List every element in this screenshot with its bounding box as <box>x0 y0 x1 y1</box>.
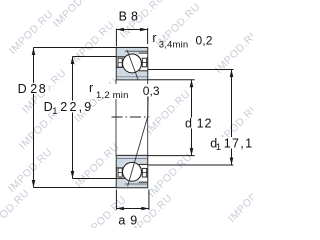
cage rivet line left (upper) <box>118 62 122 64</box>
a extension line left <box>115 190 117 210</box>
outer ring shoulder line left (upper) <box>116 56 125 58</box>
svg-text:IMPOD.RU: IMPOD.RU <box>146 151 195 200</box>
inner ring land line (lower) <box>117 157 147 159</box>
d arrow top <box>190 80 194 88</box>
dimension d (bore diameter) <box>148 80 195 156</box>
D arrow bottom <box>32 180 36 188</box>
svg-text:B: B <box>119 10 127 24</box>
svg-text:a: a <box>118 213 125 227</box>
label d 12 <box>184 118 193 129</box>
svg-text:22,9: 22,9 <box>60 100 93 114</box>
dimension D1 (outer ring land diameter) <box>71 57 117 179</box>
section body outline (upper) <box>116 48 147 80</box>
inner ring shoulder line right (lower) <box>139 163 148 165</box>
dimension D (outside diameter) <box>32 48 117 188</box>
cage pocket left (lower) <box>118 168 122 177</box>
D1 extension line bottom <box>73 178 117 180</box>
a dimension line <box>116 208 148 210</box>
d extension line bottom <box>148 155 195 157</box>
label D1 22,9 <box>43 101 89 113</box>
left face edge line between halves <box>115 80 117 156</box>
B arrow left <box>116 28 124 32</box>
inner ring shoulder line left (lower) <box>116 167 124 169</box>
cage rivet line left (lower) <box>118 172 122 174</box>
svg-text:0,3: 0,3 <box>143 84 160 98</box>
raceway groove gap (upper) <box>122 53 143 74</box>
svg-text:IMPOD.RU: IMPOD.RU <box>73 141 122 190</box>
svg-text:r: r <box>89 81 93 95</box>
D dimension line <box>33 48 35 188</box>
d extension line top <box>148 79 195 81</box>
dimension B (width) <box>116 28 147 47</box>
inner ring land line (upper) <box>117 76 147 78</box>
svg-text:12: 12 <box>197 116 213 130</box>
D1 dimension line <box>72 57 74 179</box>
svg-text:1: 1 <box>52 106 57 117</box>
svg-text:1,2 min: 1,2 min <box>96 90 129 101</box>
outer ring shoulder line left (lower) <box>116 177 125 179</box>
outer ring counterbore relief (lower right) <box>139 178 148 182</box>
B extension line right <box>147 28 149 44</box>
ball (lower) <box>123 162 142 181</box>
raceway groove gap (lower) <box>122 161 143 182</box>
d1 arrow bottom <box>230 158 234 166</box>
d1 arrow top <box>230 70 234 78</box>
svg-text:d: d <box>185 116 192 130</box>
a arrow right <box>141 207 149 211</box>
a extension line right <box>148 190 150 210</box>
svg-text:IMPOD.RU: IMPOD.RU <box>0 187 32 228</box>
cage rivet line right (upper) <box>142 62 146 64</box>
svg-text:1: 1 <box>216 142 221 153</box>
outer ring counterbore relief (upper right) <box>139 53 148 57</box>
bearing cross-section, upper half <box>116 48 147 81</box>
svg-text:0,2: 0,2 <box>196 34 213 48</box>
inner ring relief (upper right) <box>139 67 148 71</box>
d arrow bottom <box>190 148 194 156</box>
dimension text labels <box>17 10 254 228</box>
section body outline (lower) <box>116 155 147 187</box>
B dimension line <box>116 29 147 31</box>
outer ring (lower) <box>117 178 147 187</box>
D extension line top <box>34 47 117 49</box>
ball (upper) <box>123 54 142 73</box>
cage rivet line right (lower) <box>142 172 146 174</box>
d1 extension line bottom <box>148 164 234 166</box>
D arrow top <box>32 48 36 56</box>
outer ring counterbore line right (upper) <box>139 52 148 54</box>
dimension d1 (inner ring land diameter) <box>148 70 234 166</box>
inner ring shoulder line left (upper) <box>116 66 124 68</box>
label 0,3 <box>142 84 160 97</box>
D1 arrow bottom <box>71 171 75 179</box>
inner ring (lower) <box>117 156 147 168</box>
a arrow left <box>116 207 124 211</box>
svg-text:r: r <box>152 31 156 45</box>
svg-text:IMPOD.RU: IMPOD.RU <box>51 0 100 30</box>
d1 dimension line <box>231 70 233 166</box>
svg-text:IMPOD.RU: IMPOD.RU <box>226 176 253 225</box>
outer ring land line (lower) <box>125 183 148 185</box>
svg-text:17,1: 17,1 <box>224 136 253 150</box>
svg-text:3,4min: 3,4min <box>159 39 189 50</box>
inner ring (upper) <box>117 67 147 79</box>
cage pocket left (upper) <box>118 58 122 67</box>
cage pocket right (lower) <box>142 168 146 177</box>
D1 arrow top <box>71 57 75 65</box>
inner ring relief (lower right) <box>139 164 148 168</box>
svg-text:8: 8 <box>131 10 138 24</box>
svg-text:IMPOD.RU: IMPOD.RU <box>7 8 56 57</box>
contact angle line (upper) <box>127 50 138 80</box>
contact angle line (lower) with r 0,3 leader <box>128 96 149 186</box>
B extension line left <box>115 29 117 47</box>
label D 28 <box>17 83 49 94</box>
svg-text:28: 28 <box>30 82 47 96</box>
d dimension line <box>191 80 193 156</box>
outer ring counterbore line right (lower) <box>139 181 148 183</box>
label d1 17,1 <box>210 137 250 149</box>
D extension line bottom <box>34 187 117 189</box>
dimension a (contact point offset) <box>116 190 148 211</box>
inner ring shoulder line right (upper) <box>139 70 148 72</box>
svg-text:9: 9 <box>130 213 137 227</box>
label r1,2 min <box>88 84 129 99</box>
cage pocket right (upper) <box>142 58 146 67</box>
outer ring land line (upper) <box>125 50 148 52</box>
B arrow right <box>140 28 148 32</box>
bearing center axis line <box>112 116 150 118</box>
svg-text:D: D <box>18 82 27 96</box>
d1 extension line top <box>148 69 234 71</box>
D1 extension line top <box>73 56 117 58</box>
right face edge line between halves <box>147 80 149 156</box>
bearing cross-section, lower half (mirrored) <box>116 155 147 187</box>
outer ring (upper) <box>117 48 147 57</box>
svg-text:IMPOD.RU: IMPOD.RU <box>213 27 253 76</box>
svg-text:IMPOD.RU: IMPOD.RU <box>68 19 117 68</box>
